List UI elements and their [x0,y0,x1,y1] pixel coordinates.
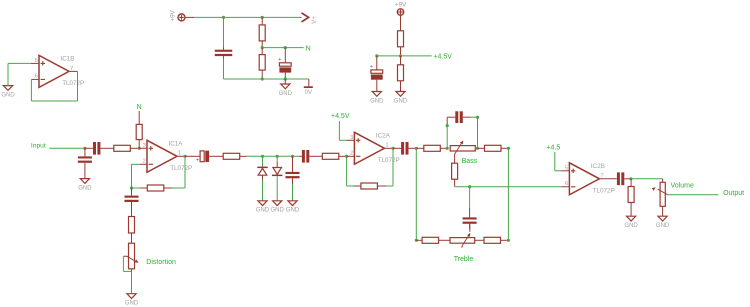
wire treble tap down [469,187,471,208]
junction feedback node [130,186,133,189]
0V supply symbol [304,79,313,96]
op-amp IC2A [350,132,400,164]
svg-text:5: 5 [565,166,568,172]
wire output node [631,178,663,180]
op-amp IC1A [143,140,193,172]
label Distortion [146,259,176,266]
net label N [306,45,311,52]
svg-text:+: + [278,57,281,63]
ground clip cap [286,201,300,214]
resistor divider upper [259,17,265,47]
junction top rail left [222,16,225,19]
svg-text:TL072P: TL072P [62,80,84,87]
op-amp IC1A pin1 lead [177,155,185,157]
net label Output [723,190,744,197]
junction 0V rail 1 [261,77,264,80]
resistor divider lower [259,48,265,79]
ground D1 [256,201,270,214]
junction IC1A pin3 node [138,147,141,150]
junction diode 1 [261,155,264,158]
svg-text:6: 6 [35,74,38,80]
resistor ref upper [398,15,404,56]
junction clip cap [291,155,294,158]
svg-text:3: 3 [350,135,353,141]
wire D1 to gnd [262,180,264,201]
svg-text:IC2B: IC2B [591,163,605,170]
svg-text:GND: GND [656,223,670,229]
svg-text:TL072P: TL072P [378,157,400,164]
wire cap left down [446,126,448,149]
svg-text:GND: GND [78,185,92,191]
junction bass out [507,147,510,150]
junction treble left [415,239,418,242]
wire GND to IC1B pin5 [8,63,31,85]
net label +4.5 3 [546,145,560,152]
capacitor coupling 3 [299,150,323,163]
resistor output load [628,179,634,216]
svg-text:Treble: Treble [454,256,474,263]
svg-text:GND: GND [1,92,15,98]
op-amp IC1B pin7 lead [69,70,78,72]
op-amp IC1B [35,55,85,87]
op-amp IC2B pin6 lead [561,186,569,188]
junction ref cap tap [375,54,378,57]
junction output node [629,177,632,180]
svg-text:0V: 0V [305,90,312,96]
op-amp IC2A pin2 lead [347,155,355,157]
junction node N [261,46,264,49]
wire tone right vertical [507,148,509,240]
net label N 2 [137,104,142,111]
svg-text:GND: GND [125,301,139,307]
capacitor input coupling [85,142,114,155]
wire to diode clippers [247,155,299,157]
ground [1,86,15,99]
capacitor IC2A out coupling [393,142,416,155]
net label Input [31,143,46,150]
ground ref divider [394,92,408,105]
svg-text:+: + [370,64,373,70]
resistor bass left [416,145,447,151]
ground volume [656,216,670,229]
ground output load [624,216,638,229]
svg-text:+: + [196,158,199,164]
ground input [78,179,92,192]
junction 0V rail 2 [284,77,287,80]
svg-text:+9V: +9V [395,2,407,9]
junction IC2A pin2 node [345,155,348,158]
wire feedback to output [386,148,393,186]
svg-text:5: 5 [35,58,38,64]
resistor input series [114,145,139,151]
svg-text:N: N [137,104,142,111]
wire cap to resistor [131,208,133,217]
resistor treble right [475,237,509,243]
svg-text:GND: GND [394,98,408,104]
svg-text:3: 3 [143,143,146,149]
wire +4.5V to IC2A pin3 [339,121,346,140]
diode D1 cathode-up [257,156,267,180]
svg-text:GND: GND [256,208,270,214]
net label +4.5V 2 [331,113,350,120]
svg-text:6: 6 [565,181,568,187]
op-amp IC2B [565,163,615,195]
junction tone in [415,147,418,150]
wire +4.5 to IC2B pin5 [555,152,562,171]
wire 0V rail [224,78,309,80]
wire rail to C filter [223,17,225,47]
op-amp IC1B pin6 lead [31,78,39,80]
junction N cap tap [284,46,287,49]
svg-text:Bass: Bass [462,158,478,165]
svg-text:GND: GND [624,223,638,229]
svg-text:V+: V+ [311,16,318,24]
wire +9V to V+ rail [185,16,302,18]
resistor IC1A feedback [140,185,172,191]
wire input [49,147,85,149]
V+ arrow symbol [302,13,319,24]
svg-text:GND: GND [370,98,384,104]
svg-text:IC1A: IC1A [169,141,184,148]
+9V supply symbol 2 [397,9,403,15]
junction input node [83,147,86,150]
junction IC1A output [183,155,186,158]
wire cap right down [477,117,479,148]
junction cap right [476,116,479,119]
resistor stage2 series [223,153,247,159]
svg-text:+4.5: +4.5 [546,145,560,152]
capacitor clip shunt [285,156,299,184]
svg-text:Distortion: Distortion [146,259,176,266]
label Volume [671,183,694,190]
svg-text:GND: GND [286,208,300,214]
resistor distortion series [129,217,135,244]
potentiometer Bass [450,141,475,164]
resistor bass wiper [452,163,458,187]
wire IC2A feedback [347,156,354,186]
svg-text:TL072P: TL072P [593,187,615,194]
junction treble right [507,239,510,242]
svg-text:TL072P: TL072P [170,165,192,172]
wire tone left vertical [415,148,417,240]
capacitor bass bypass [447,111,477,125]
+9V label 2 [395,2,407,9]
svg-text:2: 2 [350,151,353,157]
svg-text:+9V: +9V [170,9,177,21]
op-amp IC1B pin5 lead [31,62,39,64]
potentiometer Distortion [123,243,138,271]
diode D2 cathode-down [272,156,282,176]
svg-text:+4.5V: +4.5V [331,113,350,120]
potentiometer Treble [450,224,475,248]
net label +4.5V [433,54,452,61]
svg-text:Volume: Volume [671,183,694,190]
svg-text:GND: GND [271,208,285,214]
ground ref cap [370,92,384,105]
svg-text:2: 2 [143,159,146,165]
op-amp IC1A pin2 lead [132,163,148,165]
junction IC2A output [391,147,394,150]
capacitor polarized N bypass [278,48,291,79]
junction cap left [446,124,449,127]
wire clip cap to gnd [292,184,294,201]
capacitor input shunt [78,148,92,178]
junction treble tap [468,185,471,188]
svg-text:+4.5V: +4.5V [433,54,452,61]
wire pot to ground [131,271,133,293]
capacitor supply filter [215,48,233,60]
wire volume wiper to output [668,194,719,196]
potentiometer Volume [652,179,668,216]
label Treble [454,256,474,263]
resistor ref lower [398,56,404,92]
op-amp IC2B pin5 lead [561,170,569,172]
capacitor output coupling [617,172,631,185]
op-amp IC2A pin1 lead [384,147,393,149]
+9V label [170,9,177,21]
capacitor treble [463,208,477,229]
op-amp IC2B pin7 lead [599,178,616,180]
+9V supply symbol [178,14,185,21]
resistor treble left [416,237,450,243]
svg-text:IC2A: IC2A [376,133,391,140]
wire mid rail to IC2B pin6 [455,186,562,188]
capacitor polarized coupling 2 [185,151,223,164]
svg-text:IC1B: IC1B [61,56,75,63]
wire +4.5V node [377,55,432,57]
ground D2 [271,201,285,214]
wire C filter to 0V rail [223,58,225,79]
svg-text:GND: GND [279,91,293,97]
wire IC1B feedback [31,71,77,101]
wire feedback to pin2 [132,164,141,188]
capacitor polarized ref bypass [370,56,383,92]
capacitor distortion [124,188,138,209]
junction diode 2 [276,155,279,158]
resistor to IC2A [322,153,346,159]
resistor bias from N [136,111,142,148]
op-amp IC1A pin3 lead [139,147,147,149]
op-amp IC2A pin3 lead [346,139,354,141]
ground power [279,79,293,97]
svg-text:N: N [306,45,311,52]
wire IC1A feedback down [172,156,185,188]
svg-text:Input: Input [31,143,46,150]
ground distortion [125,294,139,307]
junction bass left [446,147,449,150]
wire D2 to gnd [276,176,278,201]
junction top rail right [261,16,264,19]
junction +4.5V node [399,54,402,57]
label Bass [462,158,478,165]
junction bass right [476,147,479,150]
wire node N [262,47,303,49]
resistor bass right [478,145,509,151]
svg-text:Output: Output [723,190,744,197]
resistor IC2A feedback [353,183,386,189]
